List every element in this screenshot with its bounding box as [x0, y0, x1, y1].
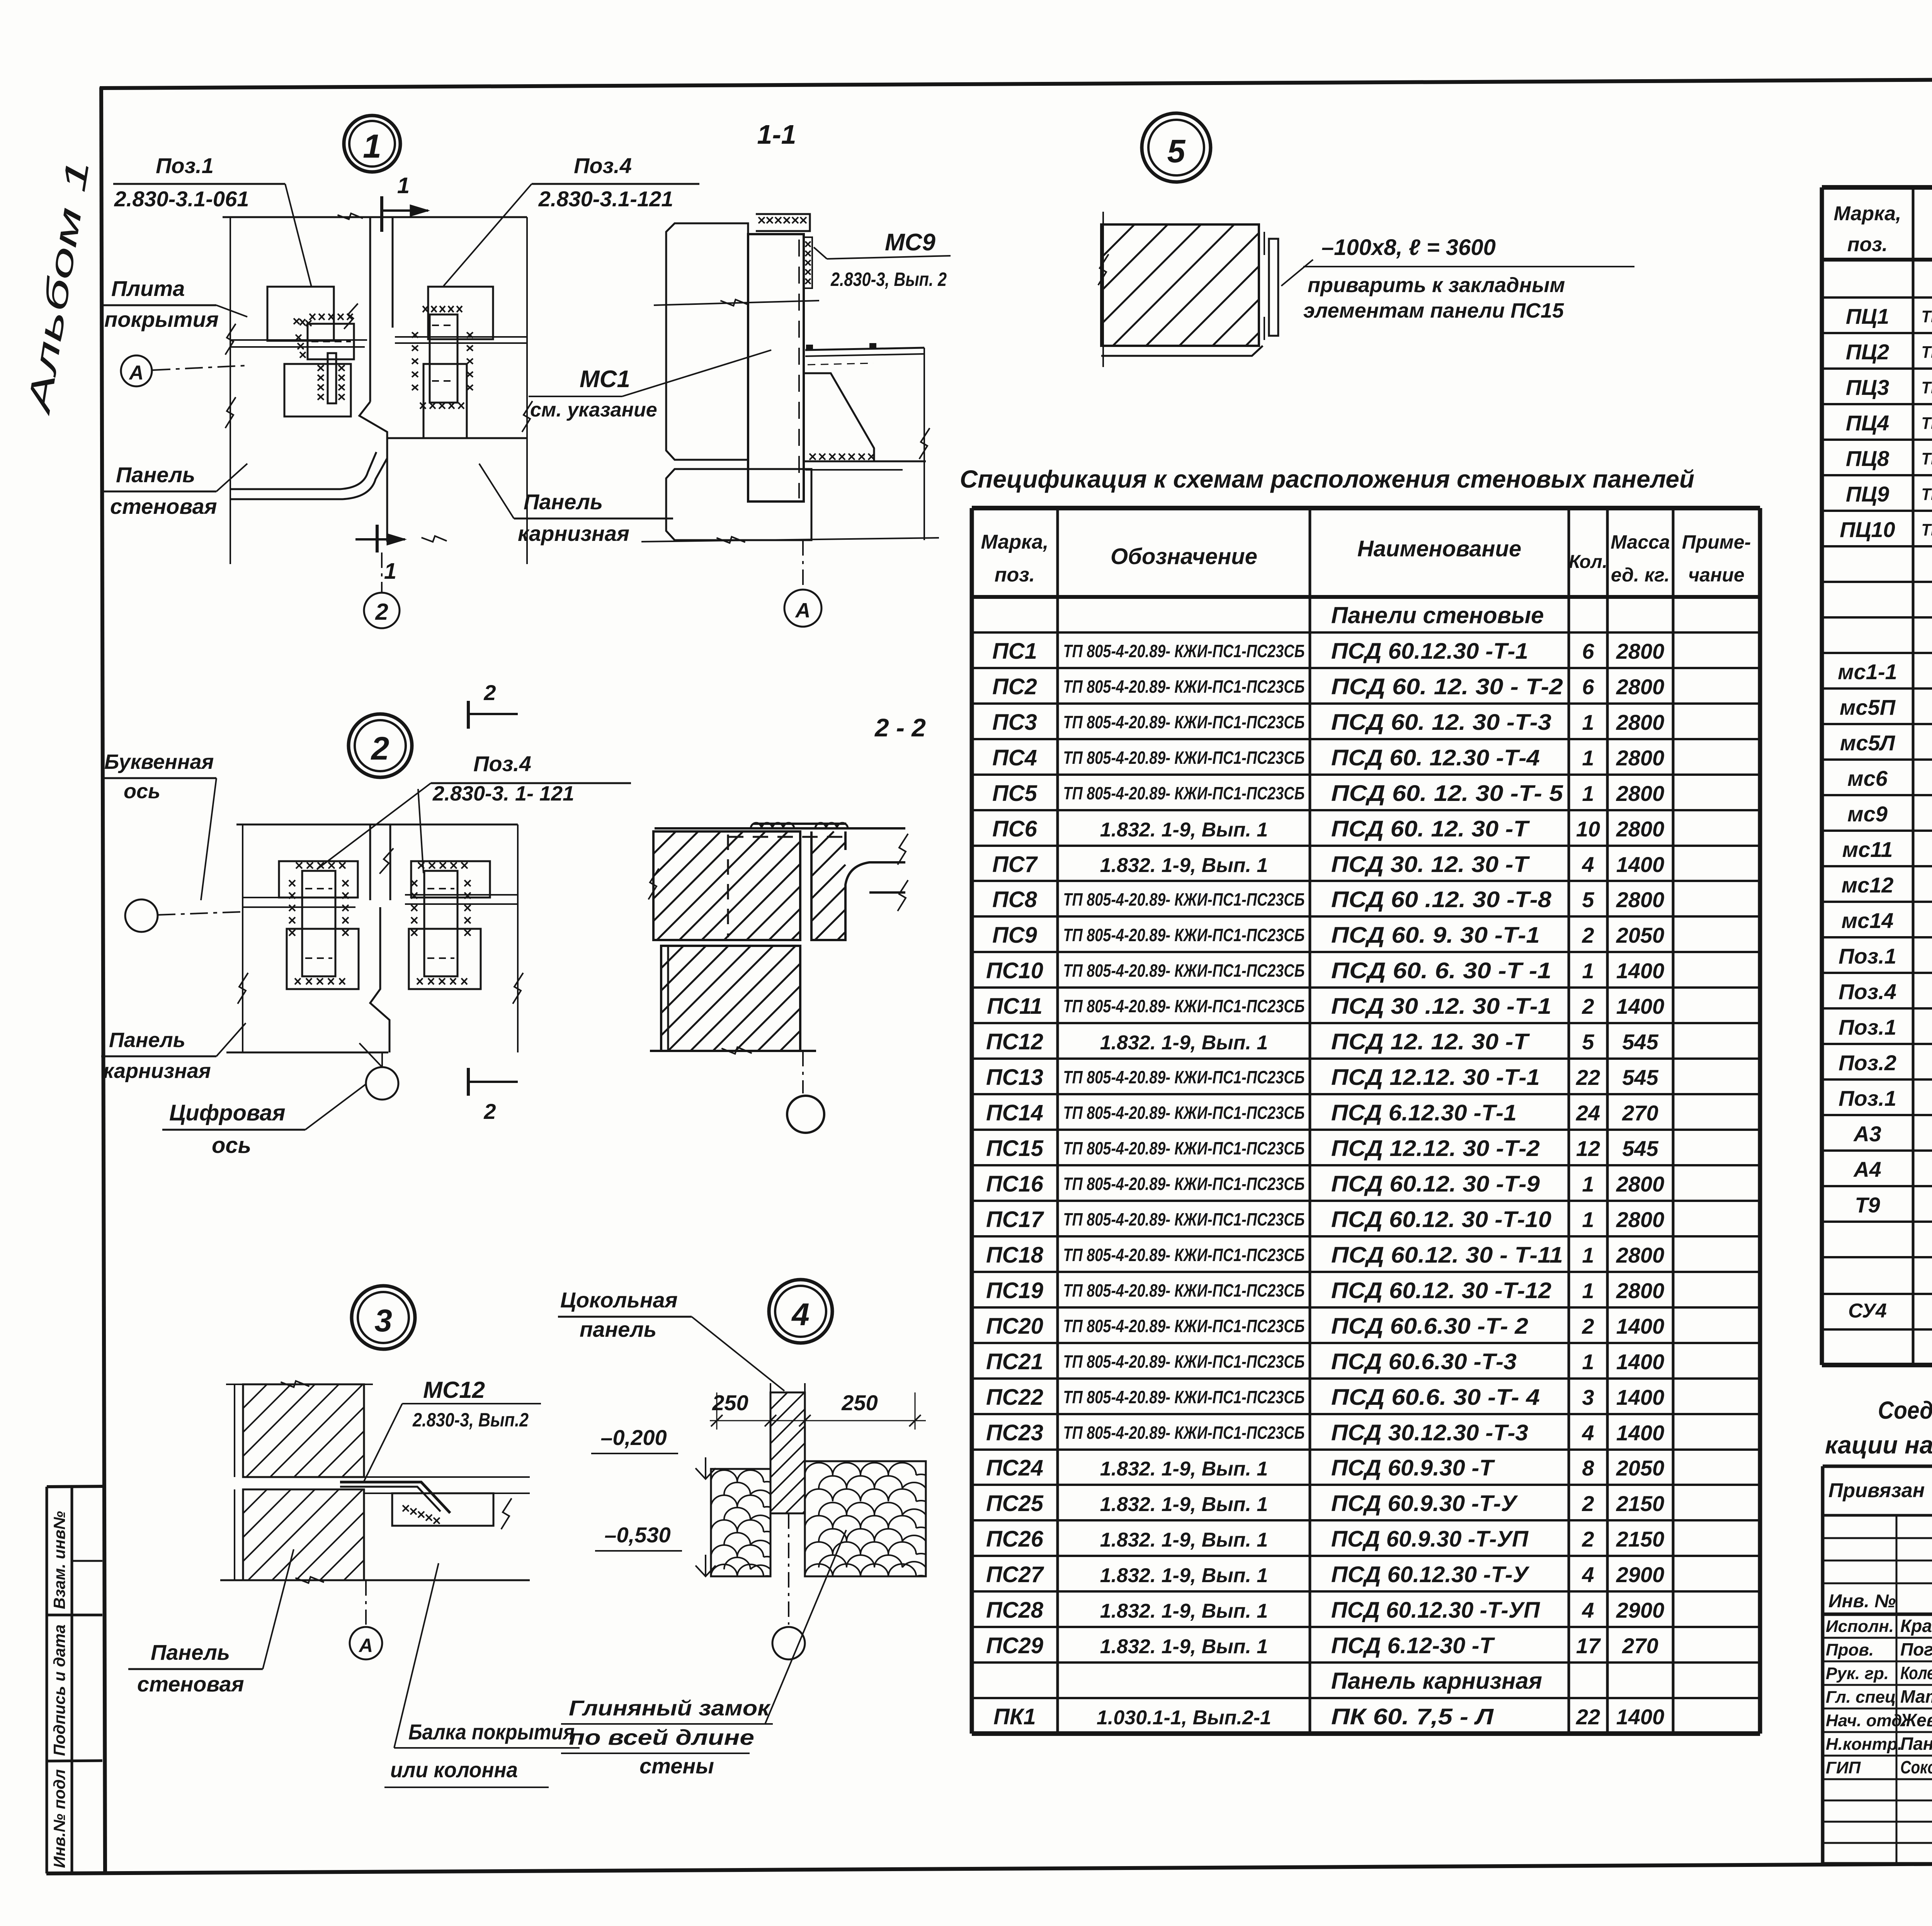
- detail 2 center joint lines: [369, 824, 371, 900]
- svg-text:ПС23: ПС23: [986, 1420, 1043, 1445]
- svg-text:Инв. №: Инв. №: [1828, 1591, 1896, 1612]
- svg-text:1.832. 1-9, Вып. 1: 1.832. 1-9, Вып. 1: [1100, 1529, 1268, 1551]
- svg-text:Цокольная: Цокольная: [560, 1288, 678, 1312]
- svg-text:ПС8: ПС8: [992, 887, 1037, 912]
- svg-text:ТП 805-4-20.89- КЖИ-ПС1-ПС23СБ: ТП 805-4-20.89- КЖИ-ПС1-ПС23СБ: [1063, 1103, 1305, 1123]
- svg-text:ПС17: ПС17: [986, 1207, 1044, 1232]
- svg-text:Марка,: Марка,: [981, 531, 1049, 553]
- svg-text:А: А: [795, 599, 811, 622]
- svg-text:ПС28: ПС28: [986, 1598, 1044, 1623]
- detail 3 lower wall panel hatched: [243, 1489, 364, 1580]
- svg-text:ПСД 60.12. 30 -Т-10: ПСД 60.12. 30 -Т-10: [1331, 1207, 1551, 1232]
- svg-text:Поз.1: Поз.1: [1838, 944, 1896, 968]
- svg-text:3: 3: [374, 1303, 392, 1338]
- svg-text:1: 1: [1582, 1243, 1594, 1267]
- svg-text:2 - 2: 2 - 2: [874, 713, 926, 742]
- svg-text:ПС27: ПС27: [986, 1562, 1044, 1587]
- svg-text:1: 1: [363, 128, 381, 165]
- svg-text:545: 545: [1622, 1030, 1658, 1054]
- section 1-1 corbel bracket: [804, 373, 874, 461]
- svg-text:2800: 2800: [1616, 746, 1665, 770]
- svg-text:МС1: МС1: [580, 366, 630, 393]
- svg-text:панель: панель: [580, 1317, 656, 1341]
- svg-text:ПС3: ПС3: [992, 710, 1037, 735]
- svg-text:Соединительный элемент МС1: Соединительный элемент МС1 учтен в специ…: [1878, 1396, 1932, 1424]
- detail 5 panel bottom double edge: [1101, 345, 1259, 347]
- section 1-1 corbel weld hatch: [810, 454, 874, 460]
- svg-text:покрытия: покрытия: [104, 307, 219, 331]
- svg-text:270: 270: [1622, 1101, 1658, 1125]
- svg-text:Панели стеновые: Панели стеновые: [1331, 602, 1544, 628]
- svg-text:ПС7: ПС7: [992, 852, 1038, 877]
- svg-text:ПС5: ПС5: [992, 781, 1037, 806]
- svg-text:ПС19: ПС19: [986, 1278, 1043, 1303]
- svg-text:ПСД 6.12-30 -Т: ПСД 6.12-30 -Т: [1331, 1633, 1495, 1658]
- section 1-1 left wall panel outline: [666, 223, 748, 460]
- svg-text:стеновая: стеновая: [137, 1672, 244, 1696]
- svg-text:ПСД 30 .12. 30 -Т-1: ПСД 30 .12. 30 -Т-1: [1331, 994, 1551, 1019]
- detail 1 plan top edge: [223, 216, 527, 218]
- svg-text:Панель: Панель: [151, 1640, 230, 1664]
- svg-text:Поз.4: Поз.4: [574, 153, 632, 178]
- svg-text:чание: чание: [1688, 564, 1745, 586]
- detail 2 axis circle letter: [125, 899, 158, 932]
- detail 1 right panel bottom edge: [387, 437, 527, 439]
- svg-text:ПСД 6.12.30 -Т-1: ПСД 6.12.30 -Т-1: [1331, 1100, 1517, 1125]
- section 1-1 floor slab right: [805, 348, 924, 350]
- svg-text:А: А: [358, 1635, 373, 1656]
- section 2-2 top line: [655, 827, 905, 830]
- svg-text:1400: 1400: [1616, 959, 1665, 983]
- detail 4 ground left mound scales: [711, 1469, 770, 1576]
- section 1-1 side weld strip: [804, 237, 812, 288]
- svg-text:Кравцова: Кравцова: [1900, 1616, 1932, 1636]
- center table header labels: [981, 531, 1751, 586]
- svg-text:ПСД 60.9.30 -Т-УП: ПСД 60.9.30 -Т-УП: [1331, 1527, 1529, 1552]
- section 1-1 top angle piece: [756, 214, 810, 231]
- section 1-1 axis circle A: [802, 540, 804, 590]
- svg-text:Поз.4: Поз.4: [1838, 979, 1896, 1004]
- detail 4 node circle: [769, 1280, 832, 1343]
- svg-text:1: 1: [1582, 746, 1594, 770]
- svg-text:2800: 2800: [1616, 710, 1665, 734]
- detail 5 welded strip 100x8: [1269, 239, 1278, 336]
- svg-text:Кол.: Кол.: [1569, 552, 1607, 572]
- detail 2 left connector lower plate: [287, 929, 359, 989]
- svg-text:17: 17: [1576, 1634, 1601, 1658]
- svg-text:А3: А3: [1853, 1122, 1881, 1146]
- svg-text:ПСД 60. 12. 30 - Т-2: ПСД 60. 12. 30 - Т-2: [1331, 674, 1563, 699]
- svg-text:1.832. 1-9, Вып. 1: 1.832. 1-9, Вып. 1: [1100, 1458, 1268, 1480]
- svg-text:2: 2: [1582, 994, 1594, 1018]
- page frame bottom border: [46, 1860, 1932, 1873]
- svg-text:2150: 2150: [1616, 1527, 1665, 1551]
- title block signature rows: [1826, 1616, 1932, 1777]
- svg-text:1400: 1400: [1616, 852, 1665, 877]
- svg-text:СУ4: СУ4: [1848, 1300, 1887, 1322]
- svg-text:1.832. 1-9, Вып. 1: 1.832. 1-9, Вып. 1: [1100, 1600, 1268, 1622]
- svg-text:ПС13: ПС13: [986, 1065, 1043, 1090]
- detail 3 upper wall panel hatched: [243, 1384, 364, 1477]
- svg-text:Наименование: Наименование: [1357, 536, 1521, 561]
- svg-text:ПСД 60.12. 30 -Т-12: ПСД 60.12. 30 -Т-12: [1331, 1278, 1551, 1303]
- svg-text:1-1: 1-1: [757, 119, 796, 150]
- section 1-1 central column: [748, 234, 804, 501]
- svg-text:ТП 805-4-21.89- КЖИ-ПЦ1-ПЦ10сб: ТП 805-4-21.89- КЖИ-ПЦ1-ПЦ10сб: [1922, 307, 1932, 326]
- svg-text:ПЦ10: ПЦ10: [1840, 517, 1895, 542]
- svg-text:ПЦ9: ПЦ9: [1846, 482, 1889, 506]
- detail 1 upper right slab block: [428, 287, 493, 339]
- detail 3 connector MC12 bent plate: [340, 1482, 450, 1513]
- svg-text:по всей длине: по всей длине: [569, 1725, 754, 1749]
- detail 1 section mark 1 top: [380, 196, 383, 232]
- svg-text:ТП 805-4-21.89- КЖИ-ПЦ1-ПЦ10сб: ТП 805-4-21.89- КЖИ-ПЦ1-ПЦ10сб: [1922, 378, 1932, 397]
- svg-text:ПСД 60. 6. 30 -Т -1: ПСД 60. 6. 30 -Т -1: [1331, 958, 1551, 983]
- svg-text:МС9: МС9: [885, 229, 935, 256]
- detail 4 ground right mound scales: [805, 1461, 926, 1576]
- svg-text:ПСД 60. 12. 30 -Т: ПСД 60. 12. 30 -Т: [1331, 816, 1530, 841]
- svg-text:МС12: МС12: [423, 1377, 485, 1403]
- right table grid: [1822, 187, 1932, 1365]
- svg-text:2.830-3, Вып.2: 2.830-3, Вып.2: [412, 1409, 529, 1431]
- svg-text:Спецификация к схемам распол: Спецификация к схемам расположения стено…: [960, 465, 1694, 493]
- detail 2 plan top edge: [236, 824, 518, 826]
- detail 2 plan left edge: [242, 824, 243, 1052]
- section 2-2 bottom line: [650, 1050, 816, 1052]
- svg-text:ПС10: ПС10: [986, 958, 1043, 983]
- svg-text:ТП 805-4-20.89- КЖИ-ПС1-ПС23СБ: ТП 805-4-20.89- КЖИ-ПС1-ПС23СБ: [1063, 960, 1305, 981]
- detail 1 plan left panel edge: [230, 217, 231, 564]
- svg-text:ПК 60. 7,5 - Л: ПК 60. 7,5 - Л: [1331, 1704, 1494, 1729]
- svg-text:ПСД 60. 12. 30 -Т- 5: ПСД 60. 12. 30 -Т- 5: [1331, 781, 1563, 806]
- svg-text:Исполн.: Исполн.: [1826, 1617, 1894, 1636]
- detail 5 node circle: [1142, 113, 1211, 182]
- detail 2 plan bottom edge: [226, 1052, 388, 1054]
- detail 1 plan right panel edge: [526, 217, 528, 564]
- svg-text:мс12: мс12: [1842, 873, 1894, 897]
- detail 1 axis A circle: [121, 355, 152, 386]
- svg-text:ГИП: ГИП: [1826, 1758, 1861, 1777]
- detail 2 node circle: [349, 714, 412, 777]
- detail 1 node circle: [344, 116, 400, 172]
- detail 2 section mark 2 bottom: [467, 1068, 470, 1096]
- svg-text:1: 1: [1582, 710, 1594, 734]
- svg-text:ПС29: ПС29: [986, 1633, 1043, 1658]
- section 2-2 upper right hatched column and slab: [811, 831, 905, 940]
- svg-text:ПС15: ПС15: [986, 1136, 1044, 1161]
- detail 3 seam lines right: [364, 1476, 530, 1478]
- svg-text:ТП 805-4-20.89- КЖИ-ПС1-ПС23СБ: ТП 805-4-20.89- КЖИ-ПС1-ПС23СБ: [1063, 783, 1305, 803]
- section 2-2 lower hatched panel: [661, 946, 800, 1051]
- svg-text:стеновая: стеновая: [110, 494, 217, 518]
- svg-text:ПС11: ПС11: [987, 994, 1043, 1019]
- detail 1 center joint lines: [369, 217, 371, 402]
- svg-text:Поз.2: Поз.2: [1838, 1051, 1896, 1075]
- svg-text:ТП 805-4-21.89- КЖИ-ПЦ1-ПЦ10сб: ТП 805-4-21.89- КЖИ-ПЦ1-ПЦ10сб: [1922, 414, 1932, 433]
- svg-text:карнизная: карнизная: [103, 1059, 211, 1083]
- svg-text:2800: 2800: [1616, 1243, 1665, 1267]
- svg-text:ТП 805-4-20.89- КЖИ-ПС1-ПС23СБ: ТП 805-4-20.89- КЖИ-ПС1-ПС23СБ: [1063, 1316, 1305, 1336]
- svg-text:ПСД 60.12.30 -Т-1: ПСД 60.12.30 -Т-1: [1331, 639, 1528, 664]
- svg-text:2: 2: [483, 680, 496, 705]
- svg-text:ПС18: ПС18: [986, 1243, 1044, 1268]
- svg-text:ТП 805-4-20.89- КЖИ-ПС1-ПС23СБ: ТП 805-4-20.89- КЖИ-ПС1-ПС23СБ: [1063, 1174, 1305, 1194]
- svg-text:2: 2: [1582, 1527, 1594, 1551]
- svg-text:ПЦ3: ПЦ3: [1846, 375, 1889, 399]
- svg-text:Соколовский: Соколовский: [1900, 1757, 1932, 1777]
- svg-text:ТП 805-4-20.89- КЖИ-ПС1-ПС23СБ: ТП 805-4-20.89- КЖИ-ПС1-ПС23СБ: [1063, 996, 1305, 1016]
- section 2-2 upper left hatched panel: [653, 831, 800, 940]
- svg-text:ед. кг.: ед. кг.: [1611, 564, 1670, 586]
- svg-text:1.832. 1-9, Вып. 1: 1.832. 1-9, Вып. 1: [1100, 1564, 1268, 1587]
- svg-text:приварить к закладным: приварить к закладным: [1308, 274, 1565, 297]
- svg-text:ПК1: ПК1: [993, 1704, 1036, 1729]
- svg-text:ПС16: ПС16: [986, 1171, 1044, 1197]
- detail 1 section mark 1 bottom: [376, 525, 379, 552]
- svg-text:ПСД 12.12. 30 -Т-1: ПСД 12.12. 30 -Т-1: [1331, 1065, 1540, 1090]
- svg-text:4: 4: [1582, 1562, 1594, 1587]
- detail 1 lower right block: [423, 364, 467, 438]
- svg-text:ПСД 60.6. 30 -Т- 4: ПСД 60.6. 30 -Т- 4: [1331, 1385, 1540, 1410]
- svg-text:2050: 2050: [1616, 923, 1665, 947]
- svg-text:1.030.1-1, Вып.2-1: 1.030.1-1, Вып.2-1: [1097, 1707, 1271, 1729]
- svg-text:Поз.4: Поз.4: [473, 751, 531, 776]
- detail 4 plinth panel hatched: [770, 1392, 805, 1513]
- svg-text:4: 4: [791, 1297, 810, 1332]
- svg-text:22: 22: [1576, 1705, 1600, 1729]
- svg-text:ТП 805-4-20.89- КЖИ-ПС1-ПС23СБ: ТП 805-4-20.89- КЖИ-ПС1-ПС23СБ: [1063, 1209, 1305, 1229]
- svg-text:6: 6: [1582, 639, 1594, 663]
- detail 2 section mark 2 top: [467, 701, 470, 729]
- svg-text:ПС2: ПС2: [992, 674, 1037, 699]
- svg-text:Панель: Панель: [109, 1028, 185, 1052]
- detail 2 right connector body: [424, 871, 457, 976]
- svg-text:Плита: Плита: [111, 276, 185, 301]
- svg-text:ТП 805-4-20.89- КЖИ-ПС1-ПС23СБ: ТП 805-4-20.89- КЖИ-ПС1-ПС23СБ: [1063, 1067, 1305, 1087]
- svg-text:ось: ось: [124, 780, 160, 803]
- svg-text:ПЦ2: ПЦ2: [1846, 340, 1889, 364]
- svg-text:ПЦ8: ПЦ8: [1846, 446, 1889, 471]
- svg-text:мс9: мс9: [1847, 802, 1888, 826]
- svg-text:1400: 1400: [1616, 1421, 1665, 1445]
- center table rows text: [986, 602, 1664, 1729]
- svg-text:ТП 805-4-20.89- КЖИ-ПС1-ПС23СБ: ТП 805-4-20.89- КЖИ-ПС1-ПС23СБ: [1063, 1245, 1305, 1265]
- svg-text:Панель карнизная: Панель карнизная: [1331, 1668, 1542, 1694]
- detail 2 lower axis circle: [381, 1052, 383, 1067]
- svg-text:ПЦ1: ПЦ1: [1846, 304, 1889, 328]
- svg-text:карнизная: карнизная: [518, 521, 629, 546]
- svg-text:мс11: мс11: [1842, 837, 1893, 862]
- svg-text:5: 5: [1582, 887, 1594, 912]
- svg-text:2800: 2800: [1616, 887, 1665, 912]
- left stamp strip: [46, 1487, 48, 1873]
- detail 1 seam lines left: [230, 339, 367, 341]
- svg-text:ТП 805-4-21.89- КЖИ-ПЦ1-ПЦ10сб: ТП 805-4-21.89- КЖИ-ПЦ1-ПЦ10сб: [1922, 343, 1932, 362]
- svg-text:ПС24: ПС24: [986, 1455, 1043, 1481]
- svg-text:2800: 2800: [1616, 781, 1665, 806]
- page frame top border: [100, 76, 1932, 88]
- svg-text:ПСД 12.12. 30 -Т-2: ПСД 12.12. 30 -Т-2: [1331, 1136, 1540, 1161]
- section 1-1 lower left cornice panel: [666, 469, 811, 540]
- detail 2 left connector upper plate: [279, 861, 358, 898]
- svg-text:ПСД 60. 9. 30 -Т-1: ПСД 60. 9. 30 -Т-1: [1331, 923, 1540, 948]
- section 1-1 break line upper: [654, 301, 819, 305]
- detail 2 right connector lower plate: [409, 929, 481, 989]
- svg-text:2: 2: [1582, 923, 1594, 947]
- svg-text:Рук. гр.: Рук. гр.: [1826, 1664, 1889, 1683]
- section 1-1 right edge: [923, 348, 925, 540]
- svg-text:250: 250: [841, 1391, 878, 1415]
- svg-text:545: 545: [1622, 1065, 1658, 1090]
- svg-text:3: 3: [1582, 1385, 1594, 1409]
- svg-text:Подпись и дата: Подпись и дата: [50, 1625, 68, 1756]
- svg-text:Взам. инв№: Взам. инв№: [50, 1511, 68, 1609]
- svg-text:ПСД 60.12. 30 -Т-9: ПСД 60.12. 30 -Т-9: [1331, 1171, 1540, 1197]
- detail 1 axis 2 circle bottom: [381, 552, 383, 593]
- detail 2 plan right edge: [517, 824, 519, 1052]
- detail 1 right connector: [430, 314, 457, 403]
- detail 2 right connector upper plate: [411, 861, 490, 898]
- svg-text:2800: 2800: [1616, 639, 1665, 663]
- svg-text:12: 12: [1576, 1136, 1600, 1161]
- svg-text:ТП 805-4-20.89- КЖИ-ПС1-ПС23СБ: ТП 805-4-20.89- КЖИ-ПС1-ПС23СБ: [1063, 677, 1305, 697]
- svg-text:1.832. 1-9, Вып. 1: 1.832. 1-9, Вып. 1: [1100, 1635, 1268, 1658]
- svg-text:2150: 2150: [1616, 1491, 1665, 1516]
- svg-text:Привязан: Привязан: [1828, 1479, 1925, 1502]
- svg-text:4: 4: [1582, 1421, 1594, 1445]
- detail 3 upper panel top break: [226, 1384, 373, 1385]
- detail 2 center axis lower: [370, 907, 389, 1052]
- svg-text:1: 1: [1582, 781, 1594, 806]
- svg-text:мс14: мс14: [1842, 908, 1894, 933]
- svg-text:5: 5: [1582, 1030, 1594, 1054]
- svg-text:2: 2: [375, 599, 388, 625]
- svg-text:ТП 805-4-20.89- КЖИ-ПС1-ПС23СБ: ТП 805-4-20.89- КЖИ-ПС1-ПС23СБ: [1063, 1138, 1305, 1158]
- section 2-2 axis circle: [802, 1051, 804, 1093]
- svg-text:Погосян: Погосян: [1900, 1639, 1932, 1659]
- svg-text:ПСД 60.12. 30 - Т-11: ПСД 60.12. 30 - Т-11: [1331, 1243, 1563, 1268]
- svg-text:А: А: [128, 362, 144, 384]
- svg-text:ПСД 60.6.30 -Т- 2: ПСД 60.6.30 -Т- 2: [1331, 1314, 1528, 1339]
- svg-text:2800: 2800: [1616, 1278, 1665, 1303]
- svg-text:–100х8, ℓ = 3600: –100х8, ℓ = 3600: [1321, 235, 1496, 260]
- svg-text:Панель: Панель: [524, 490, 603, 514]
- svg-text:поз.: поз.: [995, 564, 1035, 586]
- svg-text:ПСД 60.9.30 -Т: ПСД 60.9.30 -Т: [1331, 1455, 1495, 1481]
- svg-text:элементам панели ПС15: элементам панели ПС15: [1303, 299, 1564, 322]
- svg-text:2800: 2800: [1616, 1172, 1665, 1196]
- svg-text:–0,530: –0,530: [604, 1523, 670, 1547]
- svg-text:2: 2: [1582, 1491, 1594, 1516]
- svg-text:поз.: поз.: [1847, 233, 1888, 256]
- svg-text:ПСД 60.12.30 -Т-УП: ПСД 60.12.30 -Т-УП: [1331, 1598, 1540, 1623]
- svg-text:мс5П: мс5П: [1840, 695, 1896, 719]
- svg-text:Нач. отд.: Нач. отд.: [1826, 1711, 1907, 1730]
- svg-text:Гл. спец: Гл. спец: [1826, 1688, 1896, 1707]
- svg-text:ПСД 60. 12.30 -Т-4: ПСД 60. 12.30 -Т-4: [1331, 745, 1540, 770]
- svg-text:6: 6: [1582, 675, 1594, 699]
- svg-text:2: 2: [1582, 1314, 1594, 1338]
- section 1-1 bottom break line: [641, 538, 939, 542]
- svg-text:ТП 805-4-20.89- КЖИ-ПС1-ПС23СБ: ТП 805-4-20.89- КЖИ-ПС1-ПС23СБ: [1063, 1423, 1305, 1443]
- svg-text:2.830-3. 1- 121: 2.830-3. 1- 121: [432, 782, 574, 805]
- detail 3 corbel bracket: [392, 1493, 493, 1526]
- svg-text:ПС20: ПС20: [986, 1314, 1043, 1339]
- svg-text:–0,200: –0,200: [600, 1425, 667, 1450]
- detail 4 axis circle: [788, 1513, 789, 1625]
- page frame left border: [101, 87, 105, 1872]
- svg-text:Обозначение: Обозначение: [1111, 544, 1257, 569]
- svg-text:1: 1: [1582, 1207, 1594, 1232]
- svg-text:2.830-3.1-061: 2.830-3.1-061: [114, 187, 249, 211]
- svg-text:А4: А4: [1853, 1157, 1881, 1181]
- detail 1 lower left block: [284, 364, 351, 416]
- svg-text:ПС21: ПС21: [986, 1349, 1043, 1374]
- svg-text:ТП 805-4-20.89- КЖИ-ПС1-ПС23СБ: ТП 805-4-20.89- КЖИ-ПС1-ПС23СБ: [1063, 641, 1305, 661]
- svg-text:545: 545: [1622, 1136, 1658, 1161]
- detail 5 left break edge: [1102, 212, 1104, 367]
- svg-text:ПСД 60 .12. 30 -Т-8: ПСД 60 .12. 30 -Т-8: [1331, 887, 1552, 912]
- svg-text:Колединцева: Колединцева: [1900, 1663, 1932, 1683]
- detail 1 left anchor bolt: [328, 353, 336, 403]
- detail 2 left connector body: [302, 871, 335, 976]
- svg-text:1: 1: [1582, 959, 1594, 983]
- svg-text:Глиняный замок: Глиняный замок: [569, 1696, 771, 1720]
- svg-text:ПС14: ПС14: [986, 1100, 1043, 1125]
- svg-text:ПС9: ПС9: [992, 923, 1037, 948]
- privyazan box: [1823, 1466, 1932, 1864]
- svg-text:Пров.: Пров.: [1826, 1640, 1874, 1659]
- svg-text:2800: 2800: [1616, 817, 1665, 841]
- svg-text:Масса: Масса: [1611, 531, 1670, 553]
- svg-text:ТП 805-4-20.89- КЖИ-ПС1-ПС23СБ: ТП 805-4-20.89- КЖИ-ПС1-ПС23СБ: [1063, 889, 1305, 909]
- svg-text:Панащенко: Панащенко: [1900, 1734, 1932, 1754]
- section 2-2 left break marks: [648, 869, 659, 899]
- detail 2 seam lines: [243, 897, 355, 898]
- svg-text:ТП 805-4-21.89- КЖИ-ПЦ1-ПЦ10сб: ТП 805-4-21.89- КЖИ-ПЦ1-ПЦ10сб: [1922, 485, 1932, 504]
- svg-text:Инв.№ подл: Инв.№ подл: [50, 1769, 68, 1868]
- detail 1 seam lines right: [395, 336, 527, 338]
- svg-text:2900: 2900: [1616, 1598, 1665, 1622]
- detail 5 panel cross-section hatched: [1101, 224, 1259, 346]
- svg-text:1400: 1400: [1616, 994, 1665, 1018]
- svg-text:Панель: Панель: [116, 462, 195, 487]
- svg-text:1: 1: [1582, 1350, 1594, 1374]
- svg-text:см. указание: см. указание: [530, 399, 657, 421]
- svg-text:Буквенная: Буквенная: [104, 750, 214, 773]
- svg-text:ТП 805-4-20.89- КЖИ-ПС1-ПС23СБ: ТП 805-4-20.89- КЖИ-ПС1-ПС23СБ: [1063, 1280, 1305, 1300]
- svg-text:8: 8: [1582, 1456, 1594, 1480]
- svg-text:2: 2: [483, 1099, 496, 1124]
- svg-text:ТП 805-4-20.89- КЖИ-ПС1-ПС23СБ: ТП 805-4-20.89- КЖИ-ПС1-ПС23СБ: [1063, 712, 1305, 732]
- svg-text:мс1-1: мс1-1: [1838, 660, 1897, 684]
- svg-text:2900: 2900: [1616, 1562, 1665, 1587]
- svg-text:ПС25: ПС25: [986, 1491, 1044, 1516]
- svg-text:Н.контр.: Н.контр.: [1826, 1735, 1902, 1754]
- svg-text:стены: стены: [639, 1754, 714, 1778]
- svg-text:ПС1: ПС1: [992, 639, 1037, 664]
- right table header labels: [1834, 202, 1932, 256]
- svg-text:мс6: мс6: [1847, 766, 1888, 790]
- svg-text:1: 1: [384, 559, 396, 584]
- svg-text:ТП 805-4-20.89- КЖИ-ПС1-ПС23СБ: ТП 805-4-20.89- КЖИ-ПС1-ПС23СБ: [1063, 1387, 1305, 1407]
- svg-text:ПЦ4: ПЦ4: [1846, 411, 1889, 435]
- svg-text:ПС22: ПС22: [986, 1385, 1043, 1410]
- svg-text:ПСД 60.9.30 -Т-У: ПСД 60.9.30 -Т-У: [1331, 1491, 1518, 1516]
- svg-text:1.832. 1-9, Вып. 1: 1.832. 1-9, Вып. 1: [1100, 819, 1268, 841]
- svg-text:270: 270: [1622, 1634, 1658, 1658]
- svg-text:ТП 805-4-20.89- КЖИ-ПС1-ПС23СБ: ТП 805-4-20.89- КЖИ-ПС1-ПС23СБ: [1063, 1351, 1305, 1372]
